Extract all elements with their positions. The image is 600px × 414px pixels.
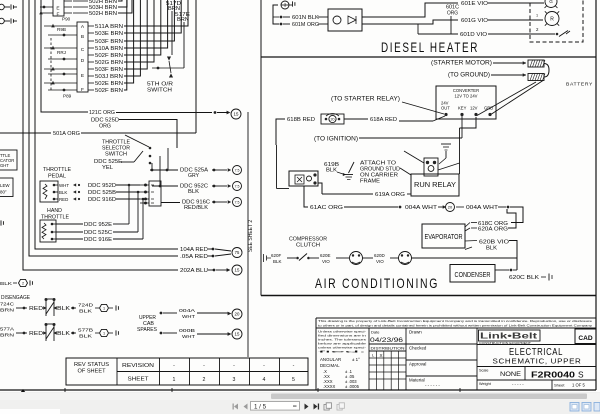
svg-text:DDC 916D: DDC 916D xyxy=(88,197,116,203)
svg-text:61AC ORG: 61AC ORG xyxy=(310,205,344,211)
svg-text:VIO: VIO xyxy=(322,259,330,264)
svg-text:620F: 620F xyxy=(271,253,282,258)
svg-text:CONDENSER: CONDENSER xyxy=(455,270,491,279)
svg-text:12V: 12V xyxy=(470,106,478,111)
svg-text:1: 1 xyxy=(103,332,105,336)
svg-text:SCHEMATIC, UPPER: SCHEMATIC, UPPER xyxy=(493,357,582,366)
svg-text:80°: 80° xyxy=(0,190,7,195)
svg-text:4: 4 xyxy=(263,377,266,383)
svg-text:724D: 724D xyxy=(78,303,94,309)
svg-text:RED: RED xyxy=(59,197,68,202)
svg-text:618B RED: 618B RED xyxy=(287,117,315,123)
svg-text:618A RED: 618A RED xyxy=(370,117,397,123)
svg-text:BRN: BRN xyxy=(177,17,189,23)
svg-text:DDC 952E: DDC 952E xyxy=(84,222,112,228)
svg-text:510A BRN: 510A BRN xyxy=(95,46,123,52)
svg-text:-: - xyxy=(263,363,265,369)
svg-text:ORG: ORG xyxy=(447,11,458,17)
svg-text:3: 3 xyxy=(233,377,236,383)
svg-text:DIESEL HEATER: DIESEL HEATER xyxy=(381,40,479,55)
svg-text:AIR CONDITIONING: AIR CONDITIONING xyxy=(315,276,439,291)
svg-text:-: - xyxy=(173,363,175,369)
svg-text:REV STATUS: REV STATUS xyxy=(74,362,109,368)
svg-text:-: - xyxy=(293,363,295,369)
svg-text:15: 15 xyxy=(234,112,239,117)
svg-text:(TO GROUND): (TO GROUND) xyxy=(448,72,490,79)
svg-text:RRJ: RRJ xyxy=(57,50,66,55)
svg-text:1: 1 xyxy=(103,307,105,311)
svg-text:Scale: Scale xyxy=(479,369,489,373)
svg-text:Checked: Checked xyxy=(409,346,427,351)
svg-text:.05A RED: .05A RED xyxy=(180,254,208,260)
svg-text:724C: 724C xyxy=(0,302,15,308)
svg-text:E: E xyxy=(56,6,59,12)
svg-text:004A: 004A xyxy=(179,308,196,314)
svg-text:503J BRN: 503J BRN xyxy=(95,74,123,80)
svg-text:502F BRN: 502F BRN xyxy=(95,53,123,59)
svg-text:R: R xyxy=(550,16,554,22)
svg-text:121C ORG: 121C ORG xyxy=(89,110,115,116)
svg-text:- - - - -: - - - - - xyxy=(512,382,524,387)
svg-text:2: 2 xyxy=(203,377,206,383)
svg-text:-: - xyxy=(203,363,205,369)
svg-text:SWITCH: SWITCH xyxy=(105,152,127,158)
svg-text:Sheet: Sheet xyxy=(554,383,565,388)
svg-text:DDC 525C: DDC 525C xyxy=(84,230,112,236)
svg-text:OUT: OUT xyxy=(441,106,450,111)
svg-text:F: F xyxy=(57,12,60,18)
svg-text:12V TO 24V: 12V TO 24V xyxy=(455,94,478,99)
svg-text:DDC 525B: DDC 525B xyxy=(88,190,116,196)
svg-text:OF SHEET: OF SHEET xyxy=(78,369,107,375)
svg-text:620C BLK: 620C BLK xyxy=(509,275,539,281)
svg-text:Drawn: Drawn xyxy=(409,330,422,335)
svg-text:501A ORG: 501A ORG xyxy=(53,131,80,137)
svg-text:RED: RED xyxy=(29,331,44,337)
svg-text:7.5: 7.5 xyxy=(235,184,240,188)
svg-text:D: D xyxy=(81,58,85,64)
svg-text:503F BRN: 503F BRN xyxy=(95,67,123,73)
svg-text:BRN: BRN xyxy=(0,308,15,314)
svg-text:BLK: BLK xyxy=(486,245,497,251)
svg-text:(TO STARTER RELAY): (TO STARTER RELAY) xyxy=(331,96,400,103)
svg-text:P89: P89 xyxy=(63,94,72,99)
svg-text:620D: 620D xyxy=(374,253,386,258)
svg-text:CLUTCH: CLUTCH xyxy=(296,243,320,249)
svg-text:ORG: ORG xyxy=(99,124,111,130)
svg-text:RUN RELAY: RUN RELAY xyxy=(414,180,456,189)
svg-text:ANGULAR: ANGULAR xyxy=(320,357,341,362)
svg-text:S: S xyxy=(578,370,584,380)
svg-text:EVAPORATOR: EVAPORATOR xyxy=(425,232,463,241)
svg-text:(STARTER MOTOR): (STARTER MOTOR) xyxy=(431,60,492,67)
svg-text:BATTERY: BATTERY xyxy=(566,82,593,88)
svg-text:Approval: Approval xyxy=(409,362,426,367)
svg-text:502H BRN: 502H BRN xyxy=(89,11,117,17)
svg-text:004A WHT: 004A WHT xyxy=(405,205,438,211)
svg-text:X: X xyxy=(380,353,383,358)
svg-text:20: 20 xyxy=(331,117,335,121)
svg-text:20: 20 xyxy=(448,204,453,209)
svg-text:BLK: BLK xyxy=(57,331,71,337)
svg-text:Weight: Weight xyxy=(479,382,492,386)
svg-text:104A RED: 104A RED xyxy=(180,247,208,253)
svg-text:GHT: GHT xyxy=(0,163,9,168)
svg-text:DDC 952D: DDC 952D xyxy=(88,183,116,189)
svg-text:004A WHT: 004A WHT xyxy=(466,205,499,211)
svg-text:5: 5 xyxy=(292,377,295,383)
svg-text:620A ORG: 620A ORG xyxy=(478,226,509,232)
svg-text:BLK: BLK xyxy=(273,259,282,264)
svg-text:620E: 620E xyxy=(320,253,331,258)
svg-text:202A BLU: 202A BLU xyxy=(180,268,208,274)
svg-text:B: B xyxy=(81,34,84,40)
svg-text:BLK: BLK xyxy=(0,281,13,287)
svg-text:577A: 577A xyxy=(0,327,15,333)
svg-text:7.5: 7.5 xyxy=(235,168,240,172)
svg-text:601G VIO: 601G VIO xyxy=(461,18,489,24)
svg-text:601D VIO: 601D VIO xyxy=(460,32,488,38)
svg-text:C: C xyxy=(81,47,85,53)
svg-text:BLK: BLK xyxy=(326,168,337,174)
svg-text:1 / 5: 1 / 5 xyxy=(254,403,267,410)
svg-text:502F BRN: 502F BRN xyxy=(95,88,123,94)
svg-text:1: 1 xyxy=(536,14,538,18)
svg-text:SEE SHEET 2: SEE SHEET 2 xyxy=(248,220,254,252)
svg-text:BRN: BRN xyxy=(0,333,15,339)
svg-text:VIO: VIO xyxy=(376,259,384,264)
svg-text:7.5: 7.5 xyxy=(235,200,240,204)
svg-text:1: 1 xyxy=(173,377,176,383)
svg-text:BLK: BLK xyxy=(59,190,67,195)
svg-text:to others or in part, of desig: to others or in part, of design and deta… xyxy=(318,323,593,327)
svg-text:BLK: BLK xyxy=(79,309,93,315)
svg-text:REVISION: REVISION xyxy=(122,363,154,369)
svg-text:CONVERTER: CONVERTER xyxy=(453,88,479,93)
svg-text:Material: Material xyxy=(409,378,425,383)
svg-text:DISTRIBUTION: DISTRIBUTION xyxy=(371,346,406,350)
svg-text:511A BRN: 511A BRN xyxy=(95,24,123,30)
svg-text:04/23/96: 04/23/96 xyxy=(370,338,404,344)
svg-text:PEDAL: PEDAL xyxy=(48,174,67,180)
svg-text:Date: Date xyxy=(371,330,380,335)
svg-text:RED/BLK: RED/BLK xyxy=(184,205,208,211)
svg-text:RED: RED xyxy=(29,306,44,312)
svg-text:- - - - - -: - - - - - - xyxy=(425,383,440,388)
svg-text:619A ORG: 619A ORG xyxy=(375,192,406,198)
svg-text:20: 20 xyxy=(235,312,240,317)
svg-text:DECIMAL: DECIMAL xyxy=(320,363,340,368)
svg-text:NONE: NONE xyxy=(500,371,521,378)
svg-text:BLK: BLK xyxy=(79,334,93,340)
svg-text:SPARES: SPARES xyxy=(137,327,157,333)
svg-text:2: 2 xyxy=(22,282,24,286)
svg-text:(TO IGNITION): (TO IGNITION) xyxy=(314,136,358,143)
svg-text:WHT: WHT xyxy=(182,334,195,340)
svg-text:503E BRN: 503E BRN xyxy=(95,31,123,37)
svg-text:± .0005: ± .0005 xyxy=(345,384,360,389)
svg-text:F2R0040: F2R0040 xyxy=(531,370,575,380)
svg-text:577B: 577B xyxy=(78,328,93,334)
svg-text:G: G xyxy=(549,0,553,4)
svg-text:F: F xyxy=(81,87,84,93)
svg-text:WHT: WHT xyxy=(59,183,69,188)
svg-text:-: - xyxy=(233,363,235,369)
svg-text:601N BLK: 601N BLK xyxy=(292,15,319,21)
svg-text:502E BRN: 502E BRN xyxy=(95,81,123,87)
svg-text:.XXXX: .XXXX xyxy=(323,384,336,389)
svg-text:15: 15 xyxy=(235,268,240,273)
svg-text:SWITCH: SWITCH xyxy=(147,88,172,94)
svg-text:CAD: CAD xyxy=(578,335,593,342)
svg-text:DISENGAGE: DISENGAGE xyxy=(1,295,30,301)
svg-text:1 OF 5: 1 OF 5 xyxy=(572,383,585,388)
svg-text:601E VIO: 601E VIO xyxy=(461,1,489,7)
svg-text:000B: 000B xyxy=(179,328,195,334)
svg-text:15: 15 xyxy=(235,332,240,337)
svg-text:R9B: R9B xyxy=(57,27,66,32)
svg-text:BLK: BLK xyxy=(57,306,71,312)
svg-text:Link•Belt: Link•Belt xyxy=(480,332,537,341)
svg-text:75: 75 xyxy=(235,250,240,255)
svg-text:601M ORG: 601M ORG xyxy=(292,22,319,28)
svg-text:FRAME: FRAME xyxy=(360,179,380,185)
svg-text:502G BRN: 502G BRN xyxy=(95,60,123,66)
svg-text:LEW: LEW xyxy=(0,183,10,188)
svg-text:BLK: BLK xyxy=(188,189,199,195)
svg-text:DDC 916E: DDC 916E xyxy=(84,237,112,243)
svg-text:GRD: GRD xyxy=(484,106,493,111)
svg-text:KEY: KEY xyxy=(458,106,467,111)
svg-text:503F BRN: 503F BRN xyxy=(95,39,123,45)
svg-text:fied:: fied: xyxy=(318,349,367,353)
svg-text:WHT: WHT xyxy=(182,314,195,320)
svg-text:± 1°: ± 1° xyxy=(352,357,360,362)
svg-text:SHEET: SHEET xyxy=(128,377,150,383)
svg-text:HAND: HAND xyxy=(47,208,62,214)
svg-text:P90: P90 xyxy=(62,17,71,22)
svg-text:E: E xyxy=(81,73,84,79)
svg-text:GRY: GRY xyxy=(188,173,199,179)
svg-text:YEL: YEL xyxy=(102,165,114,171)
svg-text:THROTTLE: THROTTLE xyxy=(43,167,71,173)
